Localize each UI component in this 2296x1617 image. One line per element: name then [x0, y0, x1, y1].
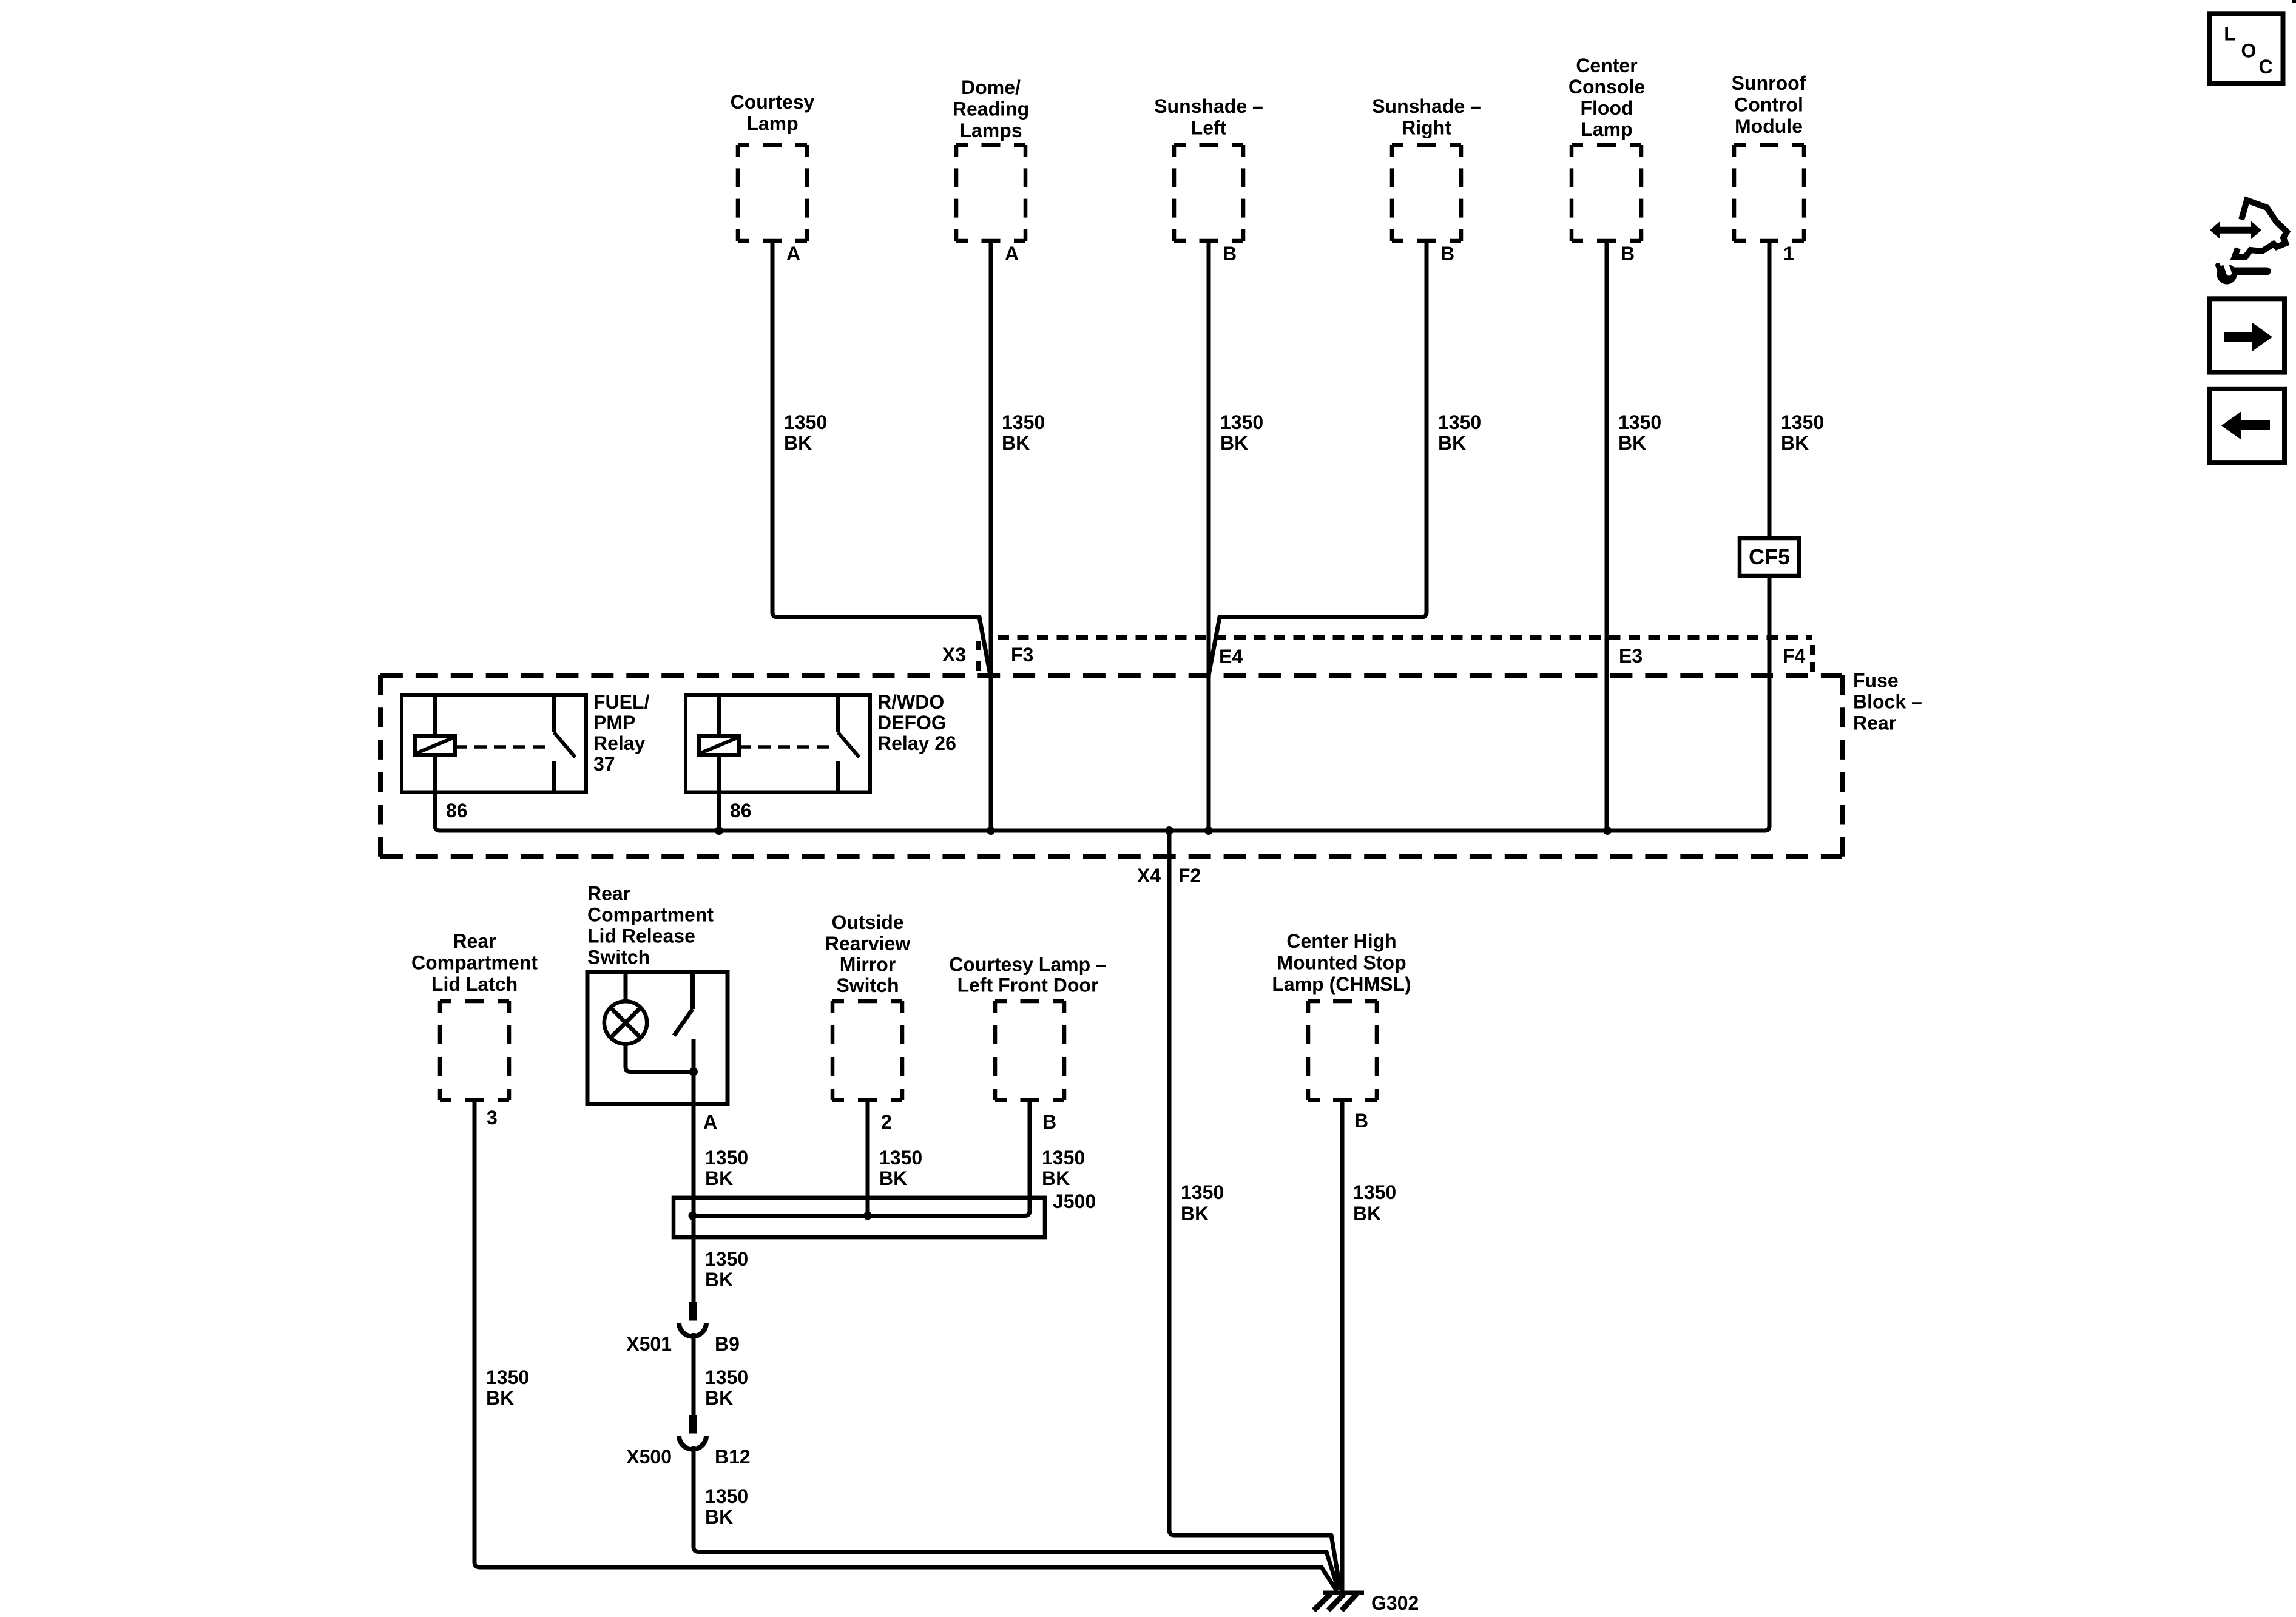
wire label 1350 BK CHMSL	[1353, 1181, 1396, 1224]
svg-text:Right: Right	[1402, 117, 1451, 139]
svg-text:CF5: CF5	[1749, 544, 1790, 569]
label R/WDO DEFOG Relay 26	[877, 691, 956, 754]
label Courtesy Lamp Left Front Door	[949, 954, 1107, 996]
svg-text:FUEL/: FUEL/	[593, 691, 650, 713]
svg-text:1350: 1350	[1353, 1181, 1396, 1203]
wire relay 26 pin 86 to bus	[717, 755, 721, 831]
connector Courtesy Lamp Left Front Door	[995, 1001, 1064, 1100]
pin A Release Switch	[703, 1111, 717, 1133]
svg-text:Compartment: Compartment	[411, 952, 538, 974]
svg-text:Center High: Center High	[1286, 930, 1396, 952]
wire label 1350 BK Lid Latch	[486, 1366, 529, 1409]
wire label 1350 BK Sunshade Right	[1438, 411, 1481, 454]
svg-text:Lamp: Lamp	[1581, 118, 1632, 140]
connector Dome/Reading Lamps	[956, 145, 1025, 241]
wire J500 internal bus	[693, 1211, 1030, 1216]
label Sunroof Control Module	[1732, 72, 1806, 137]
svg-text:1350: 1350	[705, 1485, 748, 1507]
label Outside Rearview Mirror Switch	[825, 911, 911, 996]
label Rear Compartment Lid Release Switch	[587, 883, 714, 968]
wire F2 to ground G302	[1169, 831, 1340, 1590]
svg-text:BK: BK	[784, 432, 812, 454]
pin B Courtesy Lamp LF Door	[1042, 1111, 1056, 1133]
label J500	[1053, 1190, 1096, 1212]
relay FUEL/PMP Relay 37	[402, 695, 586, 792]
label F4	[1783, 645, 1806, 667]
label Fuse Block Rear	[1853, 670, 1922, 734]
connector Sunshade Left	[1174, 145, 1243, 241]
svg-text:B9: B9	[715, 1333, 740, 1355]
svg-text:X500: X500	[626, 1446, 672, 1468]
wire Center Console Flood Lamp pin B to fuse block E3	[1605, 241, 1609, 831]
svg-text:1350: 1350	[784, 411, 827, 433]
wire Courtesy Lamp LF Door pin B to J500	[1028, 1100, 1032, 1211]
svg-text:1350: 1350	[1042, 1147, 1085, 1169]
svg-text:Mirror: Mirror	[840, 954, 896, 976]
junction lamp and switch in release switch	[689, 1068, 698, 1076]
label G302	[1371, 1592, 1419, 1614]
pin 2 Mirror Switch	[881, 1111, 892, 1133]
wire label 1350 BK pin B	[1042, 1147, 1085, 1189]
svg-text:B: B	[1354, 1110, 1368, 1132]
svg-text:37: 37	[593, 753, 615, 775]
svg-text:Rear: Rear	[1853, 712, 1896, 734]
wire Sunroof Control Module pin 1 to fuse CF5	[1768, 241, 1772, 538]
connector X3 dotted outline corner	[1810, 645, 1815, 672]
svg-text:Compartment: Compartment	[587, 904, 714, 926]
svg-text:Mounted Stop: Mounted Stop	[1277, 952, 1406, 974]
label Dome/Reading Lamps	[953, 76, 1029, 141]
svg-text:86: 86	[446, 800, 468, 822]
label E4	[1219, 646, 1243, 667]
svg-text:1350: 1350	[705, 1147, 748, 1169]
svg-text:BK: BK	[879, 1167, 907, 1189]
svg-text:BK: BK	[1042, 1167, 1070, 1189]
label F2	[1178, 865, 1201, 886]
svg-text:1350: 1350	[1220, 411, 1263, 433]
svg-text:J500: J500	[1053, 1190, 1096, 1212]
label Sunshade Right	[1372, 95, 1481, 139]
pin B Sunshade Left	[1223, 243, 1237, 265]
icon connector test (wrench and arrow)	[2210, 200, 2287, 285]
pin B Center Console Flood Lamp	[1621, 243, 1635, 265]
svg-text:BK: BK	[1353, 1203, 1381, 1224]
svg-text:Module: Module	[1735, 115, 1803, 137]
svg-text:BK: BK	[1438, 432, 1466, 454]
svg-text:Reading: Reading	[953, 98, 1029, 120]
junction E4 wire at bus	[1204, 826, 1213, 835]
svg-text:Relay: Relay	[593, 732, 646, 754]
svg-text:Rear: Rear	[453, 930, 496, 952]
svg-text:Control: Control	[1734, 94, 1803, 116]
svg-text:BK: BK	[705, 1269, 733, 1291]
svg-text:BK: BK	[486, 1387, 514, 1409]
junction E3 wire at bus	[1603, 826, 1612, 835]
pin 1 Sunroof Control Module	[1783, 243, 1794, 265]
wire label 1350 BK pin 2	[879, 1147, 922, 1189]
svg-text:F4: F4	[1783, 645, 1806, 667]
svg-text:Switch: Switch	[587, 947, 650, 968]
pin A Dome/Reading Lamps	[1005, 243, 1019, 265]
wire Sunshade Left pin B to fuse block E4	[1207, 241, 1211, 831]
connector Courtesy Lamp	[738, 145, 807, 241]
fuse CF5	[1740, 538, 1799, 576]
svg-text:B: B	[1042, 1111, 1056, 1133]
wire label 1350 BK below X500	[705, 1485, 748, 1528]
svg-text:A: A	[1005, 243, 1019, 265]
svg-text:Lid Latch: Lid Latch	[431, 973, 518, 995]
label B12	[715, 1446, 751, 1468]
junction F3 wire at bus	[987, 826, 995, 835]
svg-text:F3: F3	[1011, 644, 1033, 666]
wire CHMSL pin B to ground G302	[1340, 1100, 1345, 1592]
wire label 1350 BK Dome	[1002, 411, 1045, 454]
connector Sunshade Right	[1392, 145, 1461, 241]
svg-text:Fuse: Fuse	[1853, 670, 1899, 692]
svg-text:Left: Left	[1191, 117, 1227, 139]
icon arrow previous page	[2210, 389, 2285, 462]
relay R/WDO DEFOG Relay 26	[686, 695, 870, 792]
svg-text:Block –: Block –	[1853, 691, 1922, 713]
connector Rear Compartment Lid Latch	[440, 1001, 509, 1100]
wire label 1350 BK Sunshade Left	[1220, 411, 1263, 454]
svg-text:1350: 1350	[705, 1366, 748, 1388]
wire Mirror Switch pin 2 to J500	[866, 1100, 870, 1216]
svg-text:BK: BK	[1781, 432, 1809, 454]
svg-text:Lamps: Lamps	[959, 120, 1022, 141]
svg-text:Center: Center	[1576, 55, 1637, 76]
legend LOC box	[2210, 13, 2283, 83]
svg-text:F2: F2	[1178, 865, 1201, 886]
label FUEL/PMP Relay 37	[593, 691, 650, 775]
svg-text:Lamp: Lamp	[746, 113, 798, 135]
svg-text:A: A	[703, 1111, 717, 1133]
label Courtesy Lamp	[731, 91, 815, 135]
label Center Console Flood Lamp	[1568, 55, 1645, 140]
svg-text:1350: 1350	[705, 1248, 748, 1270]
label B9	[715, 1333, 740, 1355]
svg-text:BK: BK	[705, 1387, 733, 1409]
svg-text:3: 3	[487, 1107, 498, 1129]
svg-text:A: A	[786, 243, 800, 265]
wire label 1350 BK below J500	[705, 1248, 748, 1291]
label Rear Compartment Lid Latch	[411, 930, 538, 995]
svg-text:Rear: Rear	[587, 883, 630, 905]
svg-text:Left Front Door: Left Front Door	[957, 974, 1099, 996]
svg-text:1350: 1350	[486, 1366, 529, 1388]
pin B CHMSL	[1354, 1110, 1368, 1132]
svg-text:Courtesy: Courtesy	[731, 91, 815, 113]
pin 3 Lid Latch	[487, 1107, 498, 1129]
svg-text:1350: 1350	[1618, 411, 1661, 433]
connector Outside Rearview Mirror Switch	[832, 1001, 902, 1100]
label Center High Mounted Stop Lamp	[1272, 930, 1411, 995]
icon arrow next page	[2210, 299, 2285, 372]
label F3	[1011, 644, 1033, 666]
inline connector X500	[679, 1415, 706, 1450]
svg-text:Sunshade –: Sunshade –	[1154, 95, 1263, 117]
svg-text:Rearview: Rearview	[825, 933, 911, 954]
connector Sunroof Control Module	[1734, 145, 1804, 241]
svg-text:BK: BK	[1618, 432, 1646, 454]
label E3	[1619, 645, 1643, 667]
pin A Courtesy Lamp	[786, 243, 800, 265]
svg-text:Outside: Outside	[831, 911, 903, 933]
wire Lid Latch pin 3 to ground	[474, 1100, 1337, 1591]
svg-text:E3: E3	[1619, 645, 1643, 667]
connector X3 tick at X3 label	[976, 641, 981, 673]
wire label 1350 BK Console	[1618, 411, 1661, 454]
wire Sunshade Right pin B to E4	[1209, 241, 1427, 675]
connector CHMSL	[1308, 1001, 1377, 1100]
svg-text:G302: G302	[1371, 1592, 1419, 1614]
svg-text:Lamp (CHMSL): Lamp (CHMSL)	[1272, 973, 1411, 995]
label X500	[626, 1446, 672, 1468]
wire label 1350 BK Courtesy	[784, 411, 827, 454]
svg-text:PMP: PMP	[593, 712, 635, 734]
wire label 1350 BK pin A	[705, 1147, 748, 1189]
junction F2 drop at bus	[1165, 826, 1173, 835]
svg-text:B: B	[1621, 243, 1635, 265]
wire Courtesy Lamp pin A to X3-F3	[772, 241, 990, 675]
label X4	[1137, 865, 1161, 886]
switch Rear Compartment Lid Release	[587, 972, 728, 1104]
ground G302	[1314, 1593, 1364, 1610]
svg-text:X3: X3	[942, 644, 966, 666]
splice pack J500	[674, 1198, 1045, 1237]
svg-text:1350: 1350	[879, 1147, 922, 1169]
svg-text:B: B	[1223, 243, 1237, 265]
wire label 1350 BK F2	[1181, 1181, 1224, 1224]
pin 86 relay 26	[730, 800, 752, 822]
inline connector X501	[679, 1302, 706, 1337]
wire ground bus in fuse block	[435, 576, 1769, 831]
wire label 1350 BK Sunroof	[1781, 411, 1824, 454]
svg-text:86: 86	[730, 800, 752, 822]
svg-text:BK: BK	[1181, 1203, 1209, 1224]
svg-text:E4: E4	[1219, 646, 1243, 667]
svg-text:Flood: Flood	[1580, 97, 1633, 119]
svg-text:X501: X501	[626, 1333, 672, 1355]
pin 86 relay 37	[446, 800, 468, 822]
label Sunshade Left	[1154, 95, 1263, 139]
svg-text:1350: 1350	[1438, 411, 1481, 433]
svg-text:Lid Release: Lid Release	[587, 925, 695, 947]
svg-text:1350: 1350	[1181, 1181, 1224, 1203]
svg-text:B12: B12	[715, 1446, 751, 1468]
svg-text:Sunroof: Sunroof	[1732, 72, 1806, 94]
svg-text:Relay 26: Relay 26	[877, 732, 956, 754]
junction J500 at pin 2 wire	[863, 1212, 872, 1220]
svg-text:C: C	[2258, 56, 2272, 78]
fuse block rear dashed border	[380, 675, 1842, 857]
svg-text:1: 1	[1783, 243, 1794, 265]
label X3	[942, 644, 966, 666]
label X501	[626, 1333, 672, 1355]
svg-text:BK: BK	[1002, 432, 1030, 454]
wire Release Switch pin A to J500	[692, 1039, 696, 1303]
wire label 1350 BK between X501 X500	[705, 1366, 748, 1409]
junction J500 at pin A wire	[689, 1212, 697, 1220]
svg-text:Console: Console	[1568, 76, 1645, 98]
svg-text:2: 2	[881, 1111, 892, 1133]
svg-text:R/WDO: R/WDO	[877, 691, 944, 713]
svg-text:DEFOG: DEFOG	[877, 712, 947, 734]
svg-text:1350: 1350	[1781, 411, 1824, 433]
connector X3 dotted outline	[998, 635, 1812, 640]
svg-text:1350: 1350	[1002, 411, 1045, 433]
junction relay 26 at bus	[715, 826, 723, 835]
svg-text:BK: BK	[1220, 432, 1248, 454]
page corner mark	[2292, 0, 2296, 3]
svg-text:BK: BK	[705, 1167, 733, 1189]
svg-text:Courtesy Lamp –: Courtesy Lamp –	[949, 954, 1107, 976]
wire X501 to X500	[692, 1333, 696, 1415]
svg-text:Switch: Switch	[836, 974, 899, 996]
svg-text:Dome/: Dome/	[961, 76, 1021, 98]
svg-text:Sunshade –: Sunshade –	[1372, 95, 1481, 117]
wire X500 to ground G302	[694, 1446, 1339, 1590]
svg-text:X4: X4	[1137, 865, 1161, 886]
svg-text:O: O	[2241, 40, 2257, 62]
wire CF5 to fuse block F4	[1764, 576, 1769, 831]
connector Center Console Flood Lamp	[1572, 145, 1641, 241]
svg-text:L: L	[2224, 23, 2236, 45]
pin B Sunshade Right	[1440, 243, 1454, 265]
svg-text:B: B	[1440, 243, 1454, 265]
svg-text:BK: BK	[705, 1506, 733, 1528]
wire Dome/Reading Lamps pin A to fuse block F3	[989, 241, 993, 831]
